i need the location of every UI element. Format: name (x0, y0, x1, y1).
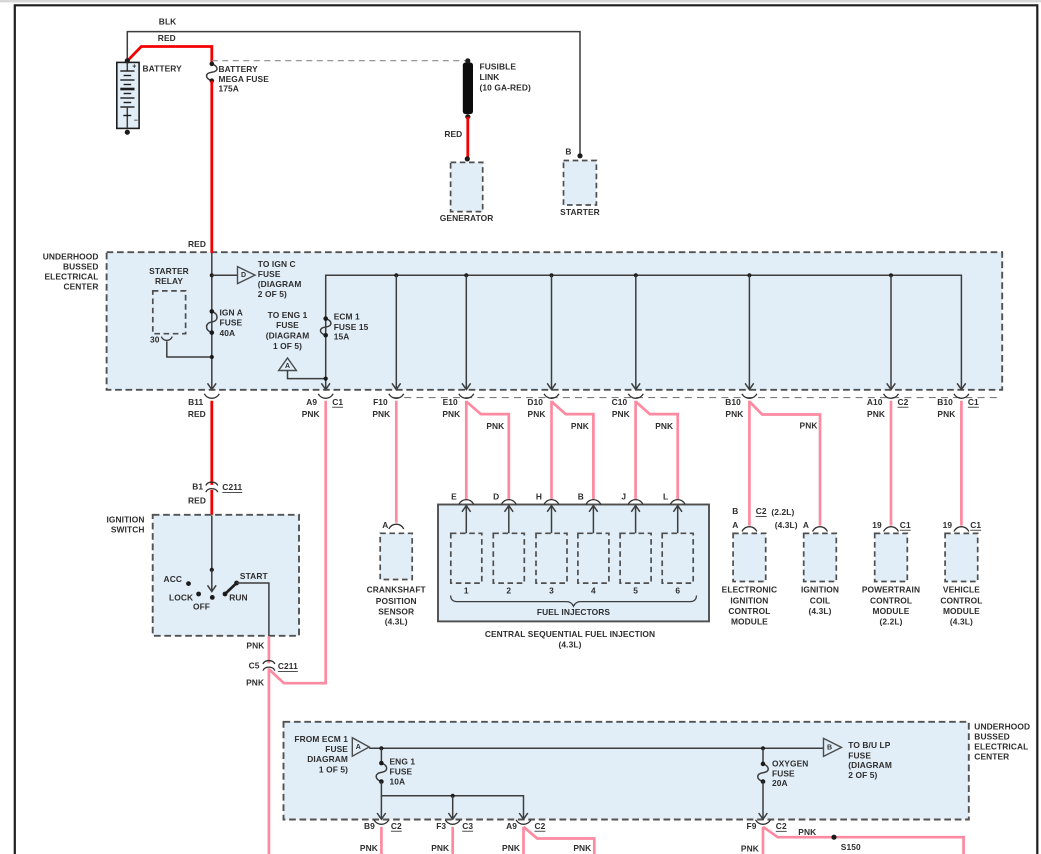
injector pin H (536, 491, 559, 504)
wire RED fusible link to generator (444, 117, 467, 159)
svg-text:RED: RED (444, 129, 462, 139)
svg-text:1 OF 5): 1 OF 5) (319, 764, 348, 774)
svg-text:F3: F3 (436, 821, 446, 831)
svg-text:C2: C2 (391, 821, 402, 831)
off-page triangle D: TO IGN C FUSE (238, 259, 302, 299)
svg-text:CRANKSHAFT: CRANKSHAFT (367, 585, 427, 595)
svg-text:IGNITION: IGNITION (801, 585, 839, 595)
wire arrow injector 6 (677, 506, 679, 534)
injector pin B (578, 491, 601, 504)
wire PNK A9 to C211 join (270, 401, 326, 683)
switch blade RUN to START (225, 583, 237, 594)
wire START out of switch (237, 583, 269, 636)
splice S150 (831, 835, 861, 852)
svg-text:CENTRAL SEQUENTIAL FUEL INJECT: CENTRAL SEQUENTIAL FUEL INJECTION (485, 629, 655, 639)
contact LOCK (169, 592, 201, 603)
wire BLK battery to starter (127, 17, 580, 156)
fuel injector 6 (662, 533, 693, 595)
svg-text:BUSSED: BUSSED (63, 262, 99, 272)
svg-text:C2: C2 (756, 506, 767, 516)
svg-text:FUSIBLE: FUSIBLE (480, 61, 517, 71)
svg-text:C211: C211 (278, 661, 298, 671)
svg-text:IGNITION: IGNITION (730, 595, 768, 605)
junction node bus x=551.5 (549, 273, 553, 277)
wire PNK E10 branch to injector D (466, 402, 509, 500)
svg-text:TO IGN C: TO IGN C (258, 259, 296, 269)
svg-text:5: 5 (633, 586, 638, 596)
fuel injector 3 (536, 533, 567, 595)
injector pin L (663, 491, 685, 504)
label central sequential fuel injection (485, 629, 655, 650)
wire RED B11 to B1 (210, 401, 213, 485)
svg-text:PNK: PNK (655, 421, 673, 431)
wire ENG1 fuse to exits (381, 782, 523, 820)
junction node bus x=396.3 (394, 273, 398, 277)
exit arrow x=749.4 (745, 383, 754, 389)
fuel injector 2 (493, 533, 524, 595)
svg-text:L: L (663, 491, 668, 501)
starter (560, 161, 600, 217)
wire triangle A to ECM1 fuse leg (288, 371, 326, 379)
relay pin 30 (150, 335, 172, 345)
svg-text:F9: F9 (747, 821, 757, 831)
wire drop B9 (380, 796, 382, 819)
wire PNK C5 down to page bottom (268, 668, 271, 854)
wire bus drop x=466.3 (465, 275, 467, 389)
wire PNK A10 to powertrain control module (890, 401, 893, 526)
starter pin B (565, 147, 582, 159)
svg-text:ECM 1: ECM 1 (334, 312, 360, 322)
svg-text:1 OF 5): 1 OF 5) (273, 341, 302, 351)
wire dashed mega fuse to fusible link (212, 60, 468, 62)
svg-text:−: − (134, 118, 138, 125)
svg-text:C2: C2 (898, 397, 909, 407)
wire arrow injector 5 (635, 506, 637, 534)
svg-text:B: B (565, 147, 571, 157)
off-page triangle A: TO ENG 1 FUSE (266, 310, 310, 371)
svg-text:A: A (356, 744, 361, 751)
svg-text:OFF: OFF (193, 602, 210, 612)
contact OFF (193, 595, 215, 612)
fuse IGN A 40A (207, 307, 243, 338)
svg-text:3: 3 (549, 586, 554, 596)
contact RUN (223, 592, 248, 603)
off-page triangle B: TO B/U LP FUSE (824, 738, 892, 780)
svg-text:19: 19 (872, 520, 882, 530)
wire arrow injector 3 (551, 506, 553, 534)
junction node bus x=635.8 (634, 273, 638, 277)
svg-text:B1: B1 (192, 481, 203, 491)
svg-text:E10: E10 (443, 397, 458, 407)
svg-text:CONTROL: CONTROL (728, 606, 770, 616)
svg-text:MEGA FUSE: MEGA FUSE (219, 74, 270, 84)
connector C10 (612, 394, 644, 419)
svg-text:UNDERHOOD: UNDERHOOD (43, 252, 99, 262)
svg-text:PNK: PNK (937, 409, 955, 419)
contact START (234, 571, 268, 585)
connector face dashed line C1/C2 (392, 397, 1002, 399)
svg-text:PNK: PNK (612, 409, 630, 419)
svg-text:C5: C5 (249, 660, 260, 670)
ignition coil pin A (803, 520, 828, 532)
svg-text:RED: RED (158, 33, 176, 43)
connector F3 C3 (431, 820, 473, 853)
svg-text:DIAGRAM: DIAGRAM (307, 754, 348, 764)
connector A9 C1 (302, 394, 344, 419)
svg-text:FUSE: FUSE (390, 767, 413, 777)
svg-text:(4.3L): (4.3L) (950, 616, 973, 626)
wire bus drop x=891.0 (890, 275, 892, 389)
brace fuel injectors (451, 596, 697, 607)
svg-text:RED: RED (188, 239, 206, 249)
generator (440, 156, 494, 223)
svg-text:GENERATOR: GENERATOR (440, 213, 494, 223)
svg-text:PNK: PNK (798, 827, 816, 837)
wire arrow injector 2 (508, 506, 510, 534)
svg-text:(2.2L): (2.2L) (771, 507, 794, 517)
svg-text:PNK: PNK (246, 678, 264, 688)
svg-text:A: A (382, 520, 388, 530)
svg-text:STARTER: STARTER (149, 266, 189, 276)
wire B11 feed inside UBEC1 (211, 253, 213, 390)
svg-text:OXYGEN: OXYGEN (772, 759, 808, 769)
central sequential fuel injection box (438, 505, 709, 622)
svg-text:FUSE 15: FUSE 15 (334, 322, 369, 332)
svg-text:BATTERY: BATTERY (143, 64, 183, 74)
svg-text:COIL: COIL (810, 595, 830, 605)
fuse ENG 1 10A (376, 748, 415, 786)
svg-text:4: 4 (591, 586, 596, 596)
svg-text:SWITCH: SWITCH (111, 525, 145, 535)
underhood bussed electrical center box 2 (284, 721, 1031, 819)
svg-text:A: A (285, 363, 290, 370)
svg-text:C10: C10 (612, 397, 628, 407)
svg-text:FUSE: FUSE (848, 750, 871, 760)
svg-text:A9: A9 (306, 397, 317, 407)
wire arrow injector 1 (465, 506, 467, 534)
wire PNK E10 to injector E (465, 401, 468, 499)
svg-text:PNK: PNK (571, 421, 589, 431)
svg-text:MODULE: MODULE (731, 616, 768, 626)
svg-text:(DIAGRAM: (DIAGRAM (258, 279, 302, 289)
wire arrow injector 4 (592, 506, 594, 534)
wire bus drop x=749.4 (748, 275, 750, 389)
svg-text:VEHICLE: VEHICLE (943, 585, 980, 595)
exit arrow B11 (208, 383, 217, 389)
svg-text:PNK: PNK (528, 409, 546, 419)
svg-text:CENTER: CENTER (63, 282, 98, 292)
svg-text:LOCK: LOCK (169, 592, 193, 602)
junction node bus x=891.0 (889, 273, 893, 277)
junction node at IGN C tap (210, 273, 214, 277)
wire arrow to OFF contact (211, 570, 213, 592)
svg-text:PNK: PNK (502, 843, 520, 853)
starter relay (149, 266, 189, 334)
powertrain control module (862, 533, 920, 626)
svg-text:ELECTRONIC: ELECTRONIC (722, 585, 777, 595)
svg-text:PNK: PNK (573, 843, 591, 853)
contact ACC (164, 574, 191, 586)
svg-text:19: 19 (943, 520, 953, 530)
svg-text:C1: C1 (900, 520, 911, 530)
svg-text:20A: 20A (772, 778, 788, 788)
wire to triangle D (212, 274, 238, 276)
svg-text:15A: 15A (334, 332, 350, 342)
svg-text:UNDERHOOD: UNDERHOOD (974, 721, 1030, 731)
exit arrow x=891.0 (887, 383, 896, 389)
junction node oxygen fuse tap (761, 746, 765, 750)
battery (117, 58, 182, 134)
connector B9 C2 (360, 820, 402, 853)
fuse ECM 1 FUSE 15 15A (320, 312, 368, 342)
exit arrow x=635.8 (632, 383, 641, 389)
wire bus drop x=635.8 (635, 275, 637, 389)
wire PNK F3 down (451, 827, 454, 854)
wire RED battery to mega fuse (127, 33, 212, 64)
connector B10 C1 (937, 394, 979, 419)
wire relay 30 to main feed (167, 341, 212, 357)
svg-text:FUEL INJECTORS: FUEL INJECTORS (537, 607, 611, 617)
svg-text:ELECTRICAL: ELECTRICAL (974, 741, 1028, 751)
wire PNK D10 to injector H (550, 401, 553, 499)
wire PNK B9 down (380, 827, 383, 854)
svg-text:J: J (621, 491, 626, 501)
svg-text:(4.3L): (4.3L) (775, 520, 798, 530)
vehicle control module (940, 533, 982, 626)
svg-text:D: D (493, 491, 499, 501)
svg-text:D10: D10 (527, 397, 543, 407)
electronic ignition control module pins (732, 506, 798, 531)
svg-text:CONTROL: CONTROL (940, 595, 982, 605)
svg-text:(DIAGRAM: (DIAGRAM (848, 760, 892, 770)
svg-text:A10: A10 (867, 397, 883, 407)
wire PNK A9 branch (524, 827, 595, 854)
svg-text:F10: F10 (373, 397, 388, 407)
off-page triangle A: FROM ECM 1 FUSE (294, 734, 369, 774)
svg-text:D: D (241, 272, 246, 279)
svg-text:FUSE: FUSE (220, 318, 243, 328)
svg-text:B11: B11 (188, 397, 203, 407)
svg-text:1: 1 (464, 586, 469, 596)
crankshaft position sensor (367, 533, 427, 626)
svg-text:175A: 175A (219, 84, 239, 94)
svg-text:MODULE: MODULE (873, 606, 910, 616)
ignition coil (801, 533, 839, 616)
svg-text:FUSE: FUSE (325, 744, 348, 754)
svg-text:(DIAGRAM: (DIAGRAM (266, 331, 310, 341)
svg-text:PNK: PNK (800, 421, 818, 431)
connector F9 C2 (741, 820, 787, 854)
wire drop F3 (452, 796, 454, 819)
wire bus drop x=551.5 (551, 275, 553, 389)
svg-text:C1: C1 (970, 520, 981, 530)
connector B1 C211 (188, 481, 242, 505)
connector A9 C2 (502, 820, 546, 853)
injector pin E (451, 491, 474, 504)
connector A10 C2 (867, 394, 909, 419)
connector C5 C211 (246, 660, 298, 687)
svg-text:(10 GA-RED): (10 GA-RED) (480, 82, 531, 92)
svg-text:(2.2L): (2.2L) (880, 616, 903, 626)
svg-text:6: 6 (675, 586, 680, 596)
svg-text:FUSE: FUSE (276, 320, 299, 330)
connector A crankshaft position sensor (382, 520, 404, 530)
junction node bus x=466.3 (464, 273, 468, 277)
svg-text:A: A (803, 520, 809, 530)
fuse OXYGEN 20A (758, 748, 809, 788)
svg-text:2: 2 (506, 586, 511, 596)
electronic ignition control module (722, 533, 777, 626)
svg-text:2 OF 5): 2 OF 5) (258, 289, 287, 299)
svg-text:(4.3L): (4.3L) (559, 639, 582, 649)
wire RED into UBEC1 (188, 81, 212, 253)
bus wire inside UBEC1 (326, 275, 962, 389)
exit arrow x=551.5 (547, 383, 556, 389)
wire PNK B10 to electronic ignition control module (748, 401, 751, 526)
svg-text:40A: 40A (220, 328, 236, 338)
connector B11 (188, 394, 219, 419)
svg-text:PNK: PNK (741, 843, 759, 853)
wire PNK B10 branch to ignition coil (749, 402, 820, 526)
wire PNK F9 branch to S150 (763, 827, 964, 854)
wire PNK D10 branch to injector B (552, 402, 594, 500)
wire drop F9 (762, 782, 764, 820)
svg-text:STARTER: STARTER (560, 207, 600, 217)
fuel injector 4 (578, 533, 609, 595)
svg-text:PNK: PNK (360, 843, 378, 853)
svg-text:RED: RED (188, 496, 206, 506)
svg-text:PNK: PNK (431, 843, 449, 853)
vehicle control module pin 19 C1 (943, 520, 982, 532)
svg-text:TO B/U LP: TO B/U LP (848, 740, 890, 750)
svg-text:IGNITION: IGNITION (106, 515, 144, 525)
ignition switch box (106, 515, 299, 636)
svg-text:S150: S150 (841, 842, 861, 852)
svg-text:PNK: PNK (442, 409, 460, 419)
junction node ENG1 fuse tap (379, 746, 383, 750)
connector E10 (442, 394, 473, 419)
svg-text:START: START (240, 571, 269, 581)
exit arrow B10/C1 (957, 383, 966, 389)
bus wire UBEC2 (369, 747, 823, 749)
svg-text:B9: B9 (364, 821, 375, 831)
svg-text:FROM ECM 1: FROM ECM 1 (294, 734, 348, 744)
connector B10 (725, 394, 757, 419)
svg-text:C3: C3 (462, 821, 473, 831)
wire bus drop x=396.3 (395, 275, 397, 389)
fuel injector 5 (620, 533, 651, 595)
svg-text:10A: 10A (390, 776, 406, 786)
svg-text:B10: B10 (937, 397, 953, 407)
wire RED B1 to ignition switch (210, 490, 213, 516)
svg-text:LINK: LINK (480, 72, 500, 82)
exit arrow A9 (321, 383, 330, 389)
junction node ECM1 leg (324, 377, 328, 381)
svg-text:FUSE: FUSE (772, 768, 795, 778)
svg-text:PNK: PNK (302, 409, 320, 419)
svg-text:IGN A: IGN A (220, 307, 243, 317)
svg-text:BATTERY: BATTERY (219, 64, 259, 74)
injector pin D (493, 491, 516, 504)
svg-text:C2: C2 (535, 821, 546, 831)
svg-text:PNK: PNK (867, 409, 885, 419)
svg-text:2 OF 5): 2 OF 5) (848, 770, 877, 780)
svg-text:MODULE: MODULE (943, 606, 980, 616)
fuel injector 1 (451, 533, 482, 595)
wire PNK F10 to crankshaft position sensor (395, 401, 398, 523)
svg-text:PNK: PNK (372, 409, 390, 419)
wire PNK switch to C5 (246, 636, 268, 663)
exit arrows B9 F3 A9 (377, 813, 386, 819)
svg-text:B: B (732, 506, 738, 516)
connector F10 (372, 394, 403, 419)
fuse battery mega fuse 175A (207, 62, 270, 94)
svg-text:ENG 1: ENG 1 (390, 757, 416, 767)
fusible link (10 GA-RED) (463, 58, 531, 119)
svg-text:POWERTRAIN: POWERTRAIN (862, 585, 920, 595)
svg-text:BLK: BLK (159, 17, 177, 27)
injector pin J (621, 491, 643, 504)
svg-text:(4.3L): (4.3L) (385, 617, 408, 627)
svg-text:ACC: ACC (164, 574, 182, 584)
svg-text:C211: C211 (222, 482, 242, 492)
svg-text:30: 30 (150, 335, 160, 345)
svg-text:PNK: PNK (246, 641, 264, 651)
svg-text:A: A (732, 520, 738, 530)
exit arrow x=466.3 (462, 383, 471, 389)
junction node relay/feed (210, 355, 214, 359)
wire PNK C10 branch to injector L (636, 402, 678, 500)
svg-text:A9: A9 (506, 821, 517, 831)
svg-text:B: B (578, 491, 584, 501)
svg-text:+: + (132, 64, 136, 71)
svg-text:RUN: RUN (229, 592, 247, 602)
powertrain control module pin 19 C1 (872, 520, 911, 532)
svg-text:FUSE: FUSE (258, 269, 281, 279)
underhood bussed electrical center box 1 (43, 252, 1003, 390)
wire PNK C10 to injector J (634, 401, 637, 499)
svg-text:B: B (827, 744, 832, 751)
wire feed inside switch (211, 516, 213, 570)
svg-text:C1: C1 (968, 397, 979, 407)
svg-text:E: E (451, 491, 457, 501)
svg-text:H: H (536, 491, 542, 501)
svg-text:PNK: PNK (725, 409, 743, 419)
svg-text:CONTROL: CONTROL (870, 595, 912, 605)
svg-text:PNK: PNK (486, 421, 504, 431)
wire PNK B10/C1 to vehicle control module (960, 401, 963, 526)
svg-text:RELAY: RELAY (155, 276, 183, 286)
svg-text:POSITION: POSITION (376, 596, 417, 606)
svg-text:(4.3L): (4.3L) (809, 606, 832, 616)
svg-text:B10: B10 (725, 397, 741, 407)
svg-text:ELECTRICAL: ELECTRICAL (44, 272, 98, 282)
svg-text:C1: C1 (332, 397, 343, 407)
wire PNK A9 down (522, 827, 525, 854)
svg-text:BUSSED: BUSSED (974, 732, 1010, 742)
junction node F3 tap (451, 794, 455, 798)
svg-text:C2: C2 (776, 821, 787, 831)
connector D10 (527, 394, 559, 419)
junction node bus x=749.4 (747, 273, 751, 277)
wire PNK F9 down (762, 827, 765, 854)
svg-text:RED: RED (188, 409, 206, 419)
svg-text:TO ENG 1: TO ENG 1 (268, 310, 308, 320)
junction node switch feed (210, 568, 214, 572)
exit arrow x=396.3 (392, 383, 401, 389)
svg-text:SENSOR: SENSOR (378, 607, 414, 617)
svg-text:CENTER: CENTER (974, 752, 1009, 762)
